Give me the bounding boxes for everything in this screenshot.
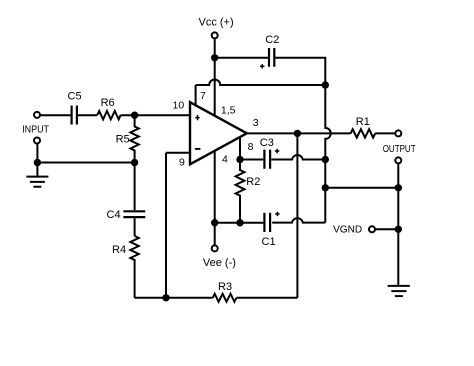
wire C3 right plate to rail with hop over x297 line [271,155,325,159]
svg-text:R3: R3 [218,281,232,293]
wire op-amp pin 4 stub [214,151,216,223]
ground symbol right [388,286,410,296]
junction R2/C1 node [236,219,243,226]
terminal input ground [34,138,40,144]
wire Vcc node to op-amp pin 1,5 [214,58,216,116]
svg-text:9: 9 [179,157,185,169]
op-amp minus input mark [195,148,201,150]
wire right rail x325 with hop over output wire [325,85,330,223]
capacitor C3 plates [264,150,270,169]
wire VGND terminal to rail [376,228,398,230]
terminal R1 output [395,130,401,136]
svg-text:4: 4 [222,154,228,166]
svg-text:R1: R1 [356,116,370,128]
wire INPUT terminal to C5 [41,114,71,116]
junction pin8/C3/R2 node [236,156,243,163]
wire C5 to R6 [78,114,97,116]
capacitor C5 plates [72,106,77,125]
junction VGND node [395,226,402,233]
op-amp U1 triangle [190,102,247,164]
svg-text:VGND: VGND [333,224,362,236]
resistor R5 [130,115,138,162]
resistor R3 [213,294,237,302]
wire OUTPUT terminal down to node [397,164,399,188]
junction C2/pin7 node [322,81,329,88]
svg-text:Vee (-): Vee (-) [203,257,236,269]
junction rail/row188 node [322,184,329,191]
terminal Vee [212,245,218,251]
terminal input signal [34,112,40,118]
svg-text:C3: C3 [260,137,274,149]
svg-text:7: 7 [200,90,206,102]
wire node8 to C3 left plate [240,159,263,161]
junction output node [294,130,301,137]
op-amp plus input mark [195,115,199,120]
wire pin4 node to C1 left plate [215,222,264,224]
wire rail node to output node row y188 [325,187,398,189]
junction R5/C4 node [131,159,138,166]
wire C2 right plate to right rail down to node at y85 [275,58,325,85]
wire op-amp pin 7 vertical stub [195,85,197,106]
junction feedback/R3 node [162,294,169,301]
svg-text:R6: R6 [101,97,115,109]
resistor R2 [236,160,245,223]
junction C3/rail node [322,156,329,163]
wire input ground vertical [36,144,38,176]
junction pin4/Vee node [211,219,218,226]
svg-text:Vcc (+): Vcc (+) [199,16,234,28]
wire C4 to R4 [134,218,136,236]
terminal OUTPUT [395,157,401,163]
wire Vcc terminal to node [214,39,216,58]
svg-text:C4: C4 [107,209,121,221]
wire ground row y162 [37,162,134,164]
wire pin4 node to Vee terminal [214,223,216,245]
polarity plus C2 [260,64,264,68]
svg-text:1,5: 1,5 [221,105,236,117]
wire bottom row to R3 [135,297,213,299]
terminal VGND [369,226,375,232]
junction Vcc node [211,54,218,61]
capacitor C1 plates [264,213,270,232]
wire feedback vertical from pin 9 [165,153,167,298]
wire Vcc node to C2 left plate [215,57,268,59]
svg-text:3: 3 [253,117,259,129]
svg-text:C5: C5 [68,91,82,103]
wire op-amp output to R1 [247,132,351,134]
polarity plus C3 [275,149,279,153]
wire pin 8 stub [239,137,241,160]
ground symbol input [26,177,48,187]
wire feedback rail x297 output node to R3 [296,133,298,297]
svg-text:8: 8 [248,141,254,153]
wire C1 row from rail corner to C1 right plate with hop [272,218,325,222]
wire output rail down to ground [397,188,399,286]
resistor R4 [130,236,138,298]
terminal Vcc [212,32,218,38]
wire pin 7 horizontal with hop over Vcc line [196,80,326,86]
junction input ground node [34,159,41,166]
wire R6 to op-amp pin 10 [121,114,190,116]
svg-text:10: 10 [173,100,185,112]
wire R1 to output terminal [375,132,394,134]
svg-text:INPUT: INPUT [22,123,49,135]
resistor R1 [351,129,376,137]
resistor R6 [97,111,120,119]
svg-text:OUTPUT: OUTPUT [383,143,416,155]
svg-text:C1: C1 [262,236,276,248]
wire R5 node down to C4 [134,163,136,211]
svg-text:R4: R4 [112,244,126,256]
polarity plus C1 [275,212,279,216]
svg-text:R2: R2 [246,176,260,188]
svg-text:R5: R5 [116,133,130,145]
junction R6/R5/pin10 node [131,112,138,119]
wire pin 9 stub [166,152,190,154]
junction output/row188 node [395,184,402,191]
capacitor C4 plates [123,211,145,217]
wire R3 right to rail corner [236,297,297,299]
capacitor C2 plates [269,48,274,67]
svg-text:C2: C2 [265,34,279,46]
